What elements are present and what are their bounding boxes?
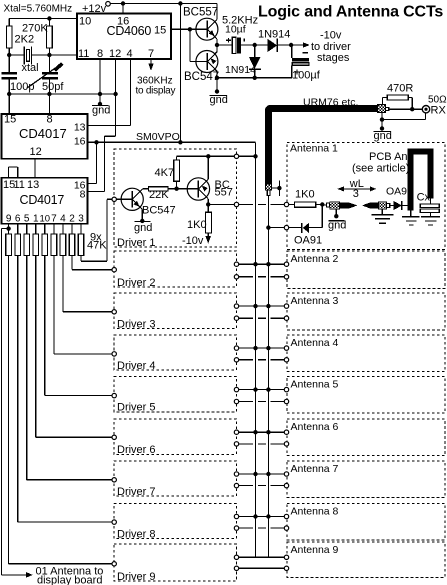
svg-text:4: 4 — [60, 214, 66, 225]
svg-text:Antenna 7: Antenna 7 — [291, 463, 339, 475]
svg-text:13: 13 — [74, 122, 86, 134]
svg-text:Xtal=5.760MHz: Xtal=5.760MHz — [4, 3, 73, 14]
svg-text:1N914: 1N914 — [258, 29, 290, 41]
svg-text:8: 8 — [97, 48, 103, 60]
svg-text:xtal: xtal — [22, 62, 39, 74]
svg-text:BC547: BC547 — [184, 71, 219, 83]
svg-text:Driver 4: Driver 4 — [117, 360, 156, 372]
svg-text:-10v: -10v — [320, 30, 342, 42]
svg-text:Cx: Cx — [417, 192, 431, 204]
svg-text:gnd: gnd — [92, 105, 110, 117]
svg-text:Antenna 2: Antenna 2 — [291, 253, 339, 265]
svg-text:Logic and Antenna CCTs: Logic and Antenna CCTs — [258, 4, 443, 21]
svg-text:1K0: 1K0 — [187, 219, 207, 231]
svg-text:11: 11 — [14, 179, 25, 191]
svg-text:100µf: 100µf — [292, 70, 321, 82]
svg-text:gnd: gnd — [374, 130, 392, 142]
svg-text:gnd: gnd — [328, 220, 346, 232]
svg-text:Driver 5: Driver 5 — [117, 402, 156, 414]
svg-text:CD4017: CD4017 — [20, 193, 65, 207]
svg-text:to display: to display — [136, 86, 176, 97]
svg-text:4: 4 — [127, 48, 133, 60]
svg-text:CD4017: CD4017 — [19, 126, 67, 141]
svg-text:Antenna 3: Antenna 3 — [291, 295, 339, 307]
svg-text:50pf: 50pf — [42, 81, 64, 93]
svg-text:7: 7 — [51, 214, 57, 225]
svg-text:1: 1 — [33, 214, 39, 225]
svg-text:+12v: +12v — [82, 3, 107, 15]
svg-text:Driver 1: Driver 1 — [117, 237, 156, 249]
svg-text:Driver 7: Driver 7 — [117, 486, 156, 498]
svg-text:7: 7 — [148, 48, 154, 60]
svg-text:8: 8 — [80, 189, 86, 201]
svg-text:12: 12 — [109, 48, 121, 60]
svg-text:Driver 6: Driver 6 — [117, 444, 156, 456]
svg-text:557: 557 — [215, 187, 233, 199]
svg-text:16: 16 — [74, 136, 86, 148]
svg-text:Antenna 8: Antenna 8 — [291, 505, 339, 517]
svg-text:Driver 2: Driver 2 — [117, 277, 156, 289]
svg-text:2K2: 2K2 — [15, 34, 35, 46]
svg-text:8: 8 — [47, 114, 53, 126]
svg-text:22K: 22K — [149, 189, 169, 201]
svg-text:stages: stages — [317, 52, 350, 64]
svg-text:Antenna 1: Antenna 1 — [290, 143, 338, 155]
svg-text:5: 5 — [24, 214, 30, 225]
svg-text:Antenna 6: Antenna 6 — [291, 421, 339, 433]
svg-text:Driver 8: Driver 8 — [117, 528, 156, 540]
svg-text:OA91: OA91 — [294, 235, 322, 247]
svg-text:3: 3 — [78, 214, 84, 225]
svg-text:gnd: gnd — [210, 94, 228, 106]
svg-text:15: 15 — [154, 25, 166, 37]
svg-text:10: 10 — [40, 214, 51, 225]
svg-text:Driver 9: Driver 9 — [117, 571, 156, 583]
svg-text:RX: RX — [431, 104, 447, 116]
svg-text:PCB Ant: PCB Ant — [369, 151, 411, 163]
svg-text:BC547: BC547 — [142, 205, 176, 217]
svg-text:Driver 3: Driver 3 — [117, 318, 156, 330]
svg-text:3: 3 — [353, 188, 359, 200]
svg-text:Antenna 9: Antenna 9 — [291, 544, 339, 556]
svg-text:16: 16 — [117, 16, 129, 28]
svg-text:47K: 47K — [87, 240, 107, 252]
svg-text:Antenna 5: Antenna 5 — [291, 378, 339, 390]
svg-text:9: 9 — [6, 214, 12, 225]
svg-text:(see article): (see article) — [352, 163, 409, 175]
svg-text:SM0VPO: SM0VPO — [136, 131, 180, 143]
svg-text:10: 10 — [79, 16, 91, 28]
svg-text:gnd: gnd — [134, 222, 152, 234]
svg-text:13: 13 — [27, 179, 39, 191]
svg-text:6: 6 — [15, 214, 21, 225]
svg-text:Antenna 4: Antenna 4 — [291, 337, 339, 349]
svg-text:15: 15 — [4, 114, 16, 126]
svg-text:display board: display board — [37, 574, 102, 585]
svg-text:470R: 470R — [387, 83, 413, 95]
svg-text:2: 2 — [69, 214, 75, 225]
svg-text:1K0: 1K0 — [295, 189, 315, 201]
svg-text:12: 12 — [30, 146, 42, 158]
svg-text:-10v: -10v — [182, 235, 204, 247]
svg-text:11: 11 — [78, 48, 89, 60]
svg-text:100p: 100p — [10, 81, 34, 93]
svg-text:4K7: 4K7 — [155, 167, 175, 179]
svg-text:10µf: 10µf — [225, 24, 246, 36]
svg-text:BC557: BC557 — [183, 7, 218, 19]
